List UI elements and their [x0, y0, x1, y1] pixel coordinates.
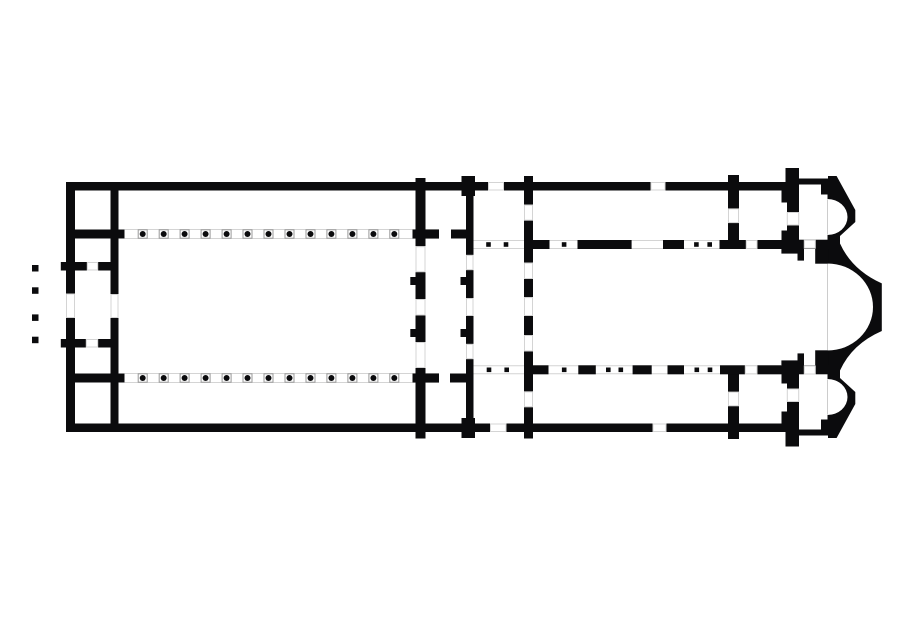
church south arcade guide lines [474, 366, 818, 374]
door: south pastophorium to arcade [745, 366, 757, 374]
north arcade segment at W1 [533, 240, 550, 249]
wall: top outer, atrium to first church door [66, 182, 488, 191]
door: north pastophorium to arcade [746, 241, 757, 249]
wall: church transverse W1, segment A [524, 176, 533, 205]
wall: narthex east, segment C [466, 316, 474, 344]
wall: top outer, mid aisle segment [504, 182, 651, 191]
atrium north colonnade guide lines [125, 230, 440, 239]
door: narthex east wall central (nave west door) [467, 299, 474, 316]
main apse interior [828, 264, 874, 351]
pier: atrium bottom strip east end [413, 374, 440, 383]
south arcade segment at W1 [533, 365, 549, 374]
wall: atrium east, segment A [416, 182, 426, 246]
south arcade pier at W2 [720, 365, 745, 374]
door: top wall narthex bay [489, 183, 504, 191]
wall: church transverse W2 north, upper [728, 175, 739, 209]
wall: narthex east, segment D [466, 359, 474, 432]
south arcade east segment [757, 365, 782, 374]
south chapel west recess [782, 384, 788, 412]
step: nave SE corner high step [798, 353, 805, 365]
wall: church transverse W1, segment B [524, 221, 533, 263]
pier: narthex east wall at atrium bottom strip [450, 374, 466, 383]
north arcade column dots [486, 242, 491, 247]
east chancel mass silhouette [782, 168, 882, 447]
north chapel apse chord line [827, 200, 829, 235]
pier: atrium east wall below bottom wall [416, 432, 426, 439]
south chapel apse interior [828, 379, 848, 415]
door: west block aux south [86, 340, 97, 348]
door: top wall east aisle [651, 183, 665, 191]
porch column square 4 [32, 337, 39, 344]
door: W3 south chapel west [787, 389, 798, 402]
south arcade segment 4 [668, 365, 685, 374]
door: atrium east wall south [416, 343, 425, 368]
door: W1 north aisle [525, 205, 533, 220]
wall: atrium east, segment C [416, 316, 426, 343]
apse opening connector [817, 264, 828, 351]
step: nave NE corner low step [781, 249, 797, 254]
door: W1 nave central [525, 298, 533, 316]
wall: west block facade, south part [111, 318, 119, 432]
atrium colonnade squares and dots, bottom row [138, 374, 399, 382]
north arcade east segment [757, 240, 782, 249]
wedge: nave NE corner to apse chord [815, 249, 828, 264]
wedge: nave SE corner to apse chord [815, 350, 828, 365]
porch column square 2 [32, 287, 39, 294]
door: bottom wall east aisle [653, 424, 666, 432]
wall: church transverse W1, segment C [524, 279, 533, 297]
wall: church transverse W1, segment D [524, 316, 533, 335]
door: atrium east wall north [416, 247, 425, 272]
north chapel notch [799, 185, 821, 195]
wall: atrium east, segment D [416, 368, 426, 432]
north chapel apse interior [828, 199, 848, 235]
south arcade segment 2 [578, 365, 596, 374]
south chapel bay [799, 374, 828, 419]
atrium colonnade squares and dots, top row [138, 230, 399, 238]
nave interior east part punching chancel mass [781, 249, 817, 365]
wall: west block north divider (atrium top strip stub) [66, 230, 125, 239]
wall: church transverse W2 south, upper [728, 374, 739, 392]
south arcade segment 3 [633, 365, 652, 374]
door: W2 north aisle [729, 209, 739, 223]
pier nub west on atrium east wall, south [410, 329, 415, 337]
south arcade column dots [487, 368, 492, 373]
wall: west block aux south, west of door [61, 339, 86, 348]
pier nub west on narthex east wall, south [461, 329, 467, 337]
door: W2 south aisle [729, 392, 739, 406]
wall: west outer, north part [66, 182, 75, 294]
wall: bottom outer, east aisle segment [667, 424, 786, 433]
door: west outer wall central [67, 294, 75, 318]
north arcade segment 3 [663, 240, 684, 249]
wall: church transverse W1, segment E [524, 351, 533, 391]
atrium south colonnade guide lines [125, 374, 440, 383]
door: north chapel south wall [804, 240, 815, 248]
column square in atrium east wall north gap [420, 257, 425, 262]
door: west facade central [111, 295, 118, 318]
north chapel bay [799, 195, 828, 240]
main apse chord line [827, 264, 829, 350]
pier: narthex east wall crossing bottom wall [462, 418, 476, 438]
column square in atrium east wall south gap [420, 352, 425, 357]
door: bottom wall narthex bay [491, 424, 507, 432]
wall: bottom outer, mid aisle segment [507, 424, 653, 433]
wall: west block aux north, east of door [98, 262, 119, 271]
south chapel apse chord line [827, 380, 829, 415]
north arcade long segment [578, 240, 632, 249]
wall: top outer, east aisle segment [666, 182, 786, 191]
door: atrium east wall central [416, 300, 425, 316]
wall: church transverse W2 south, lower [728, 406, 739, 439]
door: W1 north inner [525, 263, 533, 278]
pier: narthex east wall crossing top wall [462, 176, 476, 196]
north chapel west recess [782, 203, 788, 231]
wall: church transverse W1, segment F [524, 407, 533, 438]
pier nub west on atrium east wall, north [410, 277, 415, 285]
wall: bottom outer, atrium to first church door [66, 424, 490, 433]
porch column square 1 [32, 265, 39, 272]
step: nave SE corner low step [781, 360, 797, 365]
pier: narthex east wall at atrium top strip [451, 230, 466, 239]
north arcade pier at W2 [720, 240, 747, 249]
wall: atrium east, segment B [416, 272, 426, 299]
wall: west outer, south part [66, 318, 75, 432]
south chapel notch [799, 420, 821, 430]
wall: west block aux north, west of door [61, 262, 87, 271]
door: south chapel north wall [804, 366, 815, 374]
wall: church transverse W2 north, lower [728, 223, 739, 241]
wall: west block south divider (atrium bottom strip stub) [66, 374, 125, 383]
pier: atrium top strip east end [413, 230, 440, 239]
door: narthex east wall north [467, 255, 474, 269]
pier: atrium east wall above top wall [416, 178, 426, 182]
wall: narthex east, segment B [466, 270, 474, 298]
wall: west block facade, north part [111, 182, 119, 294]
door: west block aux north [87, 263, 97, 271]
pier nub west on narthex east wall, north [461, 277, 467, 285]
porch column square 3 [32, 314, 39, 321]
door: narthex east wall south [467, 344, 474, 358]
door: W1 south aisle [525, 392, 533, 407]
wall: west block aux south, east of door [98, 339, 119, 348]
door: W1 south inner [525, 336, 533, 351]
wall: narthex east, segment A [466, 190, 474, 255]
door: W3 north chapel west [787, 213, 798, 226]
step: nave NE corner high step [798, 249, 805, 261]
church north arcade guide lines [474, 241, 818, 249]
